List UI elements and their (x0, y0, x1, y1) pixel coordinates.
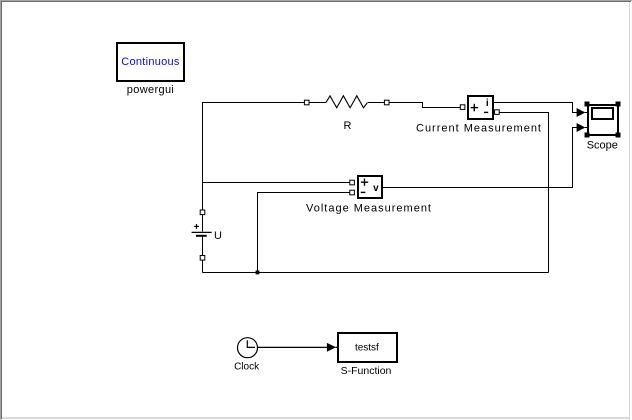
CM input port (460, 105, 465, 110)
wire CM minus down to bottom rail (499, 113, 549, 273)
CM plus sign (471, 104, 479, 112)
svg-text:Scope: Scope (587, 139, 618, 151)
svg-text:Voltage Measurement: Voltage Measurement (306, 203, 432, 215)
voltage measurement block (358, 176, 382, 198)
wire VM output to scope input2 (383, 128, 579, 188)
battery short plate (196, 235, 207, 237)
wire VM minus branch (258, 193, 351, 273)
svg-text:S-Function: S-Function (341, 365, 392, 377)
wire bottom port to rail (202, 260, 204, 273)
VM plus port (350, 180, 355, 185)
svg-text:Continuous: Continuous (121, 56, 180, 68)
clock hands (247, 340, 255, 347)
svg-text:Current Measurement: Current Measurement (416, 123, 542, 135)
scope selection handle top-left (585, 102, 590, 107)
powergui block (117, 43, 184, 81)
svg-text:testsf: testsf (355, 342, 379, 353)
scope selection handle bottom-left (585, 133, 590, 138)
current measurement block U_I (468, 96, 493, 119)
scope block (588, 105, 618, 135)
clock block circle (238, 338, 258, 358)
resistor left port (304, 100, 309, 105)
s-function block (338, 333, 397, 362)
VM minus port (350, 190, 355, 195)
VM minus sign (361, 191, 366, 193)
wire short plate to bottom port (202, 237, 204, 256)
scope selection handle top-right (616, 102, 621, 107)
wire resistor left port to zigzag (309, 102, 326, 104)
CM minus port (495, 110, 500, 115)
scope screen (592, 108, 613, 119)
DC source U battery symbol (192, 215, 212, 273)
wire CM i output to scope input1 (493, 103, 579, 113)
svg-text:R: R (344, 120, 352, 132)
resistor right port (384, 100, 389, 105)
resistor R zigzag (326, 96, 368, 108)
svg-text:v: v (373, 183, 379, 194)
wire top horizontal to resistor (203, 103, 305, 211)
svg-text:i: i (486, 98, 489, 109)
scope selection handle bottom-right (616, 133, 621, 138)
s-function input arrowhead (327, 343, 336, 352)
wire resistor right to CM input with jog (368, 103, 461, 108)
scope input2 arrowhead (577, 123, 586, 132)
wire bottom rail (203, 272, 549, 274)
wire clock to s-function (258, 346, 328, 348)
source bottom port (200, 256, 205, 261)
svg-text:U: U (214, 230, 222, 242)
junction node dot (256, 271, 260, 275)
wire: top-left corner, vertical from top wire down to source + (203, 103, 579, 273)
wire VM plus from left vertical (203, 182, 351, 184)
CM minus sign (484, 111, 488, 113)
battery long plate (192, 231, 212, 233)
svg-text:Clock: Clock (234, 362, 260, 373)
battery plus sign (194, 225, 199, 227)
source top port (200, 210, 205, 215)
scope input1 arrowhead (577, 108, 586, 117)
VM plus sign (361, 179, 368, 186)
svg-text:powergui: powergui (127, 84, 174, 96)
wire port to long plate (202, 215, 204, 232)
